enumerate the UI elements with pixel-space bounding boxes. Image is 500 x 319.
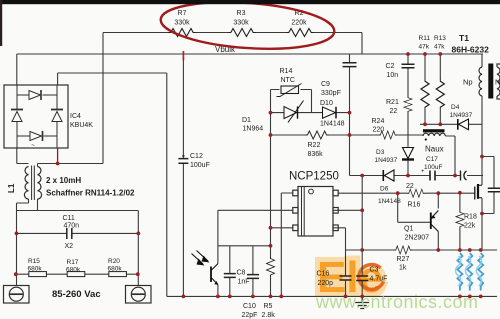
svg-text:2 x 10mH: 2 x 10mH: [46, 176, 81, 185]
wire R7 chain feed line: [103, 33, 362, 55]
svg-text:220: 220: [373, 127, 385, 134]
svg-text:~: ~: [31, 143, 35, 149]
wire L1 right leads: [37, 164, 39, 211]
wire R11 R13 columns: [425, 54, 440, 124]
transistor Q1 2N2907: [431, 211, 439, 232]
junction dots right section: [360, 122, 484, 252]
ground symbol: [355, 296, 369, 308]
capacitor C3 4.7uF: [356, 276, 368, 281]
svg-text:www.cntronics.com: www.cntronics.com: [315, 292, 479, 312]
wire Q1 base drop: [398, 193, 431, 222]
svg-text:22k: 22k: [464, 223, 476, 230]
svg-text:220p: 220p: [318, 280, 334, 287]
inductor L1 common mode choke: [24, 166, 41, 201]
wire aux sense column x362: [361, 176, 363, 297]
wire R22 line y135: [271, 134, 350, 136]
svg-text:R22: R22: [308, 142, 321, 149]
wire zener line y112: [271, 112, 350, 114]
junction dots bottom rail: [182, 295, 483, 299]
svg-text:1nF: 1nF: [238, 279, 250, 286]
IC U1 NCP1250: [293, 187, 338, 237]
wire C8 column: [229, 246, 231, 297]
svg-text:T1: T1: [459, 33, 469, 43]
svg-text:N: N: [495, 78, 500, 87]
svg-text:IC4: IC4: [70, 113, 81, 120]
wire C11 line: [17, 232, 139, 234]
svg-text:85-260 Vac: 85-260 Vac: [52, 289, 101, 300]
svg-text:C16: C16: [317, 271, 330, 278]
svg-text:47k: 47k: [434, 44, 445, 51]
capacitor C11 470n X2: [67, 228, 72, 239]
svg-text:R21: R21: [386, 99, 399, 106]
resistor R15 680k: [29, 272, 47, 277]
svg-text:1k: 1k: [399, 265, 407, 272]
svg-text:C2: C2: [386, 63, 395, 70]
transformer secondary: [497, 64, 500, 99]
junction dots left section: [14, 162, 140, 277]
zener D1 1N964: [284, 101, 304, 123]
resistor R22 836k: [305, 131, 329, 139]
snubber cap right edge loop: [488, 188, 500, 192]
bridge AC right red segment: [57, 148, 59, 164]
svg-text:1N4148: 1N4148: [320, 121, 345, 128]
capacitor C17 100uF: [430, 171, 435, 181]
wire AC resistor line: [17, 273, 139, 275]
svg-text:R17: R17: [67, 259, 79, 266]
MOSFET Q2: [475, 184, 482, 200]
svg-text:NCP1250: NCP1250: [289, 171, 339, 183]
svg-text:680k: 680k: [66, 266, 81, 273]
terminal AC left: [4, 286, 30, 304]
wire vertical x103: [38, 33, 104, 164]
wire IC mid right pin stub: [333, 209, 362, 211]
resistor R20 680k: [109, 272, 127, 277]
svg-text:D10: D10: [320, 100, 333, 107]
wire center column x270: [270, 90, 272, 297]
svg-text:2.8k: 2.8k: [262, 312, 276, 319]
wire C2 R21 D3 column: [407, 54, 409, 176]
wire NTC loop: [271, 90, 312, 113]
svg-text:C8: C8: [237, 270, 246, 277]
svg-text:Naux: Naux: [425, 145, 444, 154]
resistor R16 22: [407, 189, 425, 197]
resistor R21 22: [404, 96, 412, 113]
wire vertical x167: [166, 73, 168, 296]
svg-text:100uF: 100uF: [190, 162, 210, 169]
wire opto emitter drop: [217, 285, 219, 297]
wire IC pin2 feedback line: [218, 210, 293, 263]
bridge rectifier IC4 KBU4K: [4, 85, 68, 148]
transformer core: [488, 64, 493, 99]
wire bottom ground rail: [167, 295, 497, 297]
diode D3 1N4937: [402, 148, 414, 160]
svg-text:86H-6232: 86H-6232: [452, 45, 490, 55]
svg-text:R14: R14: [280, 68, 293, 75]
output resistors highlighted blue: [457, 253, 483, 291]
left edge dark border segment: [0, 0, 2, 46]
svg-text:C9: C9: [321, 81, 330, 88]
svg-text:R16: R16: [408, 202, 421, 209]
svg-text:C3: C3: [370, 267, 379, 274]
svg-text:470n: 470n: [64, 223, 80, 230]
svg-text:Q1: Q1: [404, 226, 413, 233]
svg-text:Schaffner RN114-1.2/02: Schaffner RN114-1.2/02: [46, 189, 135, 198]
wire Vbulk rail: [17, 53, 483, 55]
svg-text:C10: C10: [243, 303, 256, 310]
diode D4 1N4937: [458, 119, 469, 130]
svg-text:R15: R15: [28, 258, 40, 265]
resistor R11 47k: [421, 78, 429, 111]
svg-text:4.7uF: 4.7uF: [370, 276, 388, 283]
wire Naux right lead: [446, 136, 456, 176]
wire bridge plus to Vbulk: [16, 54, 18, 85]
capacitor C16 220p: [340, 276, 352, 280]
svg-text:L1: L1: [7, 183, 16, 193]
junction dots Vbulk rail: [406, 52, 442, 56]
wire C16 column: [345, 250, 347, 296]
resistor R18 22k: [456, 211, 464, 229]
svg-text:220k: 220k: [291, 20, 307, 27]
svg-text:100uF: 100uF: [424, 164, 442, 171]
svg-text:1N4937: 1N4937: [450, 112, 473, 119]
svg-text:330pF: 330pF: [321, 90, 341, 97]
resistor R3 330k: [228, 29, 256, 37]
resistor R27 1k: [394, 246, 412, 254]
svg-text:D4: D4: [451, 104, 460, 111]
wire IC pin1 ground drop: [281, 193, 292, 296]
svg-text:330k: 330k: [174, 20, 190, 27]
svg-text:330k: 330k: [233, 20, 249, 27]
wire C12 column: [182, 54, 184, 296]
svg-text:R5: R5: [264, 303, 273, 310]
svg-text:X2: X2: [65, 243, 74, 250]
capacitor C12 100uF: [178, 159, 188, 164]
svg-text:R7: R7: [178, 10, 187, 17]
wire neutral line y210: [17, 211, 139, 286]
wire bridge bottom left lead: [17, 148, 29, 164]
svg-text:KBU4K: KBU4K: [70, 122, 93, 129]
wire D6 C17 line y175.5: [350, 175, 484, 177]
aux winding Naux: [423, 129, 445, 132]
svg-text:NTC: NTC: [281, 77, 295, 84]
svg-text:R18: R18: [464, 214, 477, 221]
svg-text:R24: R24: [372, 118, 385, 125]
top black bar: [0, 0, 500, 4]
terminal AC right: [126, 286, 152, 304]
svg-text:680k: 680k: [28, 266, 43, 273]
svg-text:C11: C11: [63, 215, 75, 222]
wire rail y250: [333, 228, 497, 250]
svg-text:D1: D1: [242, 117, 251, 124]
capacitor C8 1nF: [224, 274, 236, 278]
svg-text:47k: 47k: [419, 44, 430, 51]
junction dots center column: [269, 111, 352, 248]
wire D4 clamp line: [420, 123, 482, 125]
resistor R2 220k: [286, 29, 314, 37]
svg-text:R27: R27: [397, 256, 410, 263]
svg-text:R20: R20: [108, 258, 120, 265]
wire IC pin3 line: [271, 227, 293, 229]
svg-text:R13: R13: [434, 35, 446, 42]
resistor R7 330k: [168, 29, 196, 37]
resistor R17 680k: [67, 272, 85, 277]
svg-text:D3: D3: [376, 149, 385, 156]
svg-text:Np: Np: [463, 78, 473, 87]
wire R24 line: [350, 134, 424, 136]
resistor R24 220: [379, 131, 398, 139]
svg-text:836k: 836k: [308, 151, 324, 158]
capacitor C2 10n: [402, 64, 415, 68]
capacitor C10 22pF: [247, 275, 259, 279]
svg-text:22: 22: [390, 108, 398, 115]
wire L1 left bottom jog: [17, 199, 29, 285]
transformer primary Np: [479, 67, 482, 96]
wire R16 drive line: [339, 192, 475, 194]
svg-text:1N4148: 1N4148: [378, 198, 401, 205]
svg-text:1N964: 1N964: [243, 126, 264, 133]
wire C9 column: [349, 54, 351, 176]
red tick junction C12 at Vbulk: [182, 51, 184, 61]
svg-text:C17: C17: [426, 156, 438, 163]
wire R18 column: [459, 193, 461, 250]
svg-text:D6: D6: [380, 186, 389, 193]
svg-text:22pF: 22pF: [242, 312, 258, 319]
svg-text:2N2907: 2N2907: [405, 235, 430, 242]
wire jog y73: [58, 73, 167, 85]
wire drain column x483: [482, 54, 494, 250]
transformer T1 labels: [452, 33, 490, 55]
resistor R13 47k: [436, 78, 444, 111]
svg-text:C12: C12: [190, 153, 203, 160]
wire Q1 emitter collector: [437, 193, 439, 250]
resistor R5 2.8k: [267, 257, 275, 278]
diode D6 1N4148: [383, 170, 394, 181]
capacitor C15 gate: [461, 171, 467, 181]
svg-text:680k: 680k: [108, 266, 123, 273]
diode D10 1N4148: [323, 107, 337, 119]
optocoupler phototransistor: [192, 251, 219, 285]
svg-text:22: 22: [406, 183, 414, 190]
watermark Ele logo: [317, 253, 384, 302]
thermistor R14 NTC: [281, 86, 299, 94]
wire C10 column: [252, 246, 254, 297]
svg-text:R11: R11: [419, 35, 431, 42]
svg-text:10n: 10n: [387, 72, 399, 79]
red ellipse annotation: [159, 0, 336, 54]
wire comp line y245.8: [218, 245, 271, 247]
svg-text:1N4937: 1N4937: [375, 157, 398, 164]
svg-text:R3: R3: [237, 10, 246, 17]
capacitor C9 330pF: [343, 63, 357, 67]
